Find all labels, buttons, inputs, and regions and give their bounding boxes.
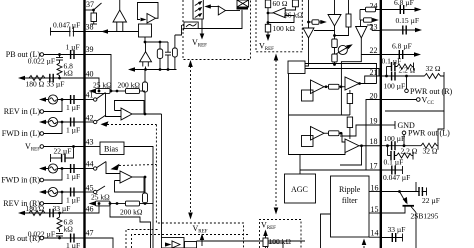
wire node row y42: [145, 41, 168, 43]
terminal circle FWD in (R): [40, 178, 44, 182]
svg-text:22: 22: [370, 46, 378, 55]
wire pin16 row: [381, 191, 427, 193]
arrowhead left pin40: [18, 76, 25, 80]
arrowhead right pin23: [415, 28, 422, 32]
resistor box vertical R-V2 feedback: [143, 177, 148, 204]
wire row y91 b: [140, 90, 146, 92]
svg-text:0.047 µF: 0.047 µF: [383, 173, 410, 182]
staircase wire to record: [110, 204, 151, 248]
source circle FWD L: [48, 117, 57, 126]
terminal PWR out (L): [402, 131, 406, 146]
svg-text:PWR out (L): PWR out (L): [408, 129, 450, 138]
capacitor C 1uF pin39: [71, 50, 74, 59]
resistor 180 ohm (L) zigzag: [29, 76, 45, 81]
resistor 6.8k (L) vertical zigzag: [57, 63, 62, 78]
capacitor C 0.022uF (L) vertical: [56, 55, 63, 64]
op-amp D2 power: [345, 77, 359, 90]
node dot chain: [333, 34, 336, 37]
svg-text:86 kΩ: 86 kΩ: [284, 11, 303, 20]
op-amp record small: [172, 241, 180, 248]
VREF drop arrow under switch box: [200, 19, 205, 40]
resistor 180 ohm (R) zigzag: [29, 211, 45, 216]
node dot chain bottom: [333, 63, 336, 66]
node dot D2 out: [358, 82, 361, 85]
node dot row y203.5 a: [109, 202, 112, 205]
resistor pill with arrow into C2: [307, 20, 327, 25]
wire row y91: [110, 90, 126, 92]
resistor box 25k top: [96, 89, 111, 94]
svg-text:6.8 µF: 6.8 µF: [392, 42, 412, 51]
wire pin17 internal to AGC: [300, 169, 381, 171]
resistor box J below D2: [347, 90, 352, 115]
wire pin23 row: [381, 29, 418, 31]
resistor box 200k top: [126, 89, 140, 94]
capacitor C 1uF pin47: [71, 234, 74, 243]
resistor box R-EQ2 vertical: [173, 25, 182, 70]
op-amp E2 power: [345, 139, 359, 153]
resistor 32 ohm (R) zigzag: [425, 74, 445, 79]
svg-text:2.2 Ω: 2.2 Ω: [399, 66, 416, 75]
node dot y42: [159, 41, 162, 44]
capacitor C 1uF pin41: [71, 95, 74, 104]
svg-text:kΩ: kΩ: [64, 225, 74, 234]
wire D2 in: [339, 86, 345, 88]
node dot D2 in: [340, 85, 343, 88]
svg-text:Ripple: Ripple: [339, 185, 361, 194]
box filter B1: [139, 24, 152, 37]
capacitor C 0.022uF (R) vertical: [56, 234, 63, 239]
wire pin22 row: [381, 54, 417, 56]
wire pin46 internal riser: [85, 204, 100, 214]
svg-text:REV in (L): REV in (L): [4, 107, 41, 116]
capacitor C 1uF pin45: [71, 188, 74, 197]
svg-text:43: 43: [86, 138, 94, 147]
arrowhead left pin44: [39, 166, 46, 170]
wire record row: [197, 240, 306, 242]
arrowhead left pin45: [39, 190, 46, 194]
resistor box pin37: [91, 10, 98, 24]
op-amp E1 power: [311, 127, 325, 141]
op-amp A5 left-pointing: [268, 7, 296, 23]
op-amp C3 down-pointing: [356, 27, 367, 55]
erase head crossed box: [237, 0, 249, 10]
arrowhead right pin22: [414, 52, 421, 56]
node dot pin44: [61, 167, 64, 170]
resistor box R-EQ1 vertical: [157, 42, 162, 70]
arrowhead into switch box: [204, 4, 218, 8]
svg-text:100 kΩ: 100 kΩ: [273, 24, 296, 33]
cluster left rail: [289, 74, 346, 155]
wire pin44 row FWD in R: [42, 168, 85, 170]
resistor box 25k bottom: [96, 201, 111, 206]
wire row y203.5 c: [140, 203, 154, 205]
wire pin24 internal with pill: [360, 7, 381, 20]
resistor chain C2 output: [332, 26, 337, 65]
terminal circle Vcc: [417, 98, 421, 102]
node dot pin18 internal: [360, 144, 363, 147]
wire pin19 row GND: [381, 124, 395, 126]
resistor box 86k feedback: [292, 0, 298, 7]
capacitor C 22uF pin16: [419, 187, 422, 196]
resistor pill D1-D2: [329, 84, 340, 89]
wire feedback row y69.5: [131, 69, 177, 71]
wire speaker R return: [385, 80, 444, 111]
svg-text:45: 45: [86, 184, 94, 193]
terminal tick pin38: [50, 28, 52, 36]
dashed box C VREF 100k: [260, 220, 302, 248]
wire pin22 to lower cluster: [341, 55, 361, 116]
node dot pin47: [58, 237, 61, 240]
resistor box vertical R-V1 feedback: [143, 70, 148, 115]
wire erase head to play head: [198, 10, 242, 29]
capacitor C 100uF (L): [392, 141, 395, 150]
dashed VREF line left vertical: [190, 66, 192, 213]
wire row y203.5: [110, 203, 126, 205]
svg-text:18: 18: [370, 137, 378, 146]
AGC box: [285, 174, 316, 203]
capacitor C 100uF (R): [392, 72, 395, 81]
svg-text:0.1 µF: 0.1 µF: [382, 57, 402, 66]
svg-text:32 Ω: 32 Ω: [423, 147, 438, 156]
svg-text:33 µF: 33 µF: [388, 225, 406, 234]
capacitor C-EQ vertical: [165, 42, 171, 70]
svg-text:FWD in (R): FWD in (R): [1, 176, 40, 185]
node dot R-V2 top: [144, 176, 147, 179]
svg-text:14: 14: [371, 229, 379, 238]
node dot PWR out L: [403, 144, 406, 147]
wire E2 in: [339, 133, 345, 142]
IC left edge (thick vertical line): [83, 0, 85, 248]
feedback loop top: [138, 3, 159, 20]
wire pin17 row: [381, 169, 403, 171]
svg-text:2.2 Ω: 2.2 Ω: [401, 147, 418, 156]
terminal circle REV in (R): [40, 202, 44, 206]
node dot R-V1 out: [144, 113, 147, 116]
zobel L branch 0.1uF + 2.2ohm: [388, 146, 414, 160]
op-amp A4: [218, 6, 225, 15]
capacitor C 1uF pin42: [71, 118, 74, 127]
feedback rect E1: [302, 136, 314, 147]
arrowhead record in: [165, 242, 172, 246]
wire REV in (R) riser: [44, 192, 63, 204]
capacitor C 6.8uF pin22: [399, 50, 402, 59]
capacitor C 1uF pin44: [71, 164, 74, 173]
svg-text:32 Ω: 32 Ω: [426, 64, 441, 73]
node dot pin43: [72, 145, 75, 148]
node dot PWR out R: [405, 75, 408, 78]
svg-text:1 µF: 1 µF: [66, 126, 80, 135]
resistor box 100k: [265, 24, 270, 32]
svg-text:1 µF: 1 µF: [66, 43, 80, 52]
wire pin23 internal: [367, 25, 381, 31]
node dot pin46 riser: [98, 202, 101, 205]
wire pin24 row: [381, 9, 417, 11]
wire pin43 to Bias: [85, 146, 101, 148]
record box 3: [268, 243, 284, 248]
feedback rect D1: [302, 90, 314, 101]
terminal tick pin14: [402, 234, 404, 242]
svg-text:kΩ: kΩ: [64, 69, 74, 78]
svg-text:44: 44: [86, 160, 94, 169]
svg-text:46: 46: [86, 205, 94, 214]
wire cluster top b: [305, 69, 381, 77]
svg-text:100 kΩ: 100 kΩ: [269, 237, 292, 246]
wire 60ohm node: [267, 8, 269, 25]
svg-text:2SB1295: 2SB1295: [411, 212, 439, 221]
svg-text:PB out (R): PB out (R): [5, 234, 40, 243]
pin 44 stub and switch: [85, 162, 107, 171]
wire pin43 row VREF: [44, 146, 85, 148]
dashed arrow up into Ripple bottom: [362, 239, 367, 248]
record box 1: [162, 238, 185, 248]
wire pin39 internal riser: [85, 55, 112, 92]
zobel R branch 0.1uF + 2.2ohm: [387, 62, 414, 76]
svg-text:60 Ω: 60 Ω: [273, 0, 288, 8]
terminal tick pin16: [426, 188, 428, 196]
capacitor C 33uF pin14: [392, 233, 395, 242]
wire pin47 row PB out R: [44, 237, 85, 239]
svg-text:1 µF: 1 µF: [66, 172, 80, 181]
resistor 32 ohm (L) zigzag: [421, 143, 438, 148]
svg-text:19: 19: [370, 117, 378, 126]
terminal tick GND: [394, 121, 396, 129]
capacitor C 0.047uF pin38: [70, 27, 74, 37]
arrowhead up VREF left: [188, 60, 193, 67]
svg-text:0.15 µF: 0.15 µF: [396, 16, 420, 25]
node dot pin45: [61, 191, 64, 194]
arrowhead right pin24: [415, 7, 422, 11]
dashed record enclosure A: [126, 230, 158, 248]
node dot pin40 riser: [98, 90, 101, 93]
terminal PWR out (R): [405, 76, 409, 93]
node dot zobel R: [385, 75, 388, 78]
op-amp B4 output wire: [132, 176, 145, 178]
svg-text:0.1 µF: 0.1 µF: [384, 158, 404, 167]
wire pin40 internal riser: [85, 78, 100, 91]
wire Ripple left down: [321, 214, 331, 248]
arrowhead into op-amp A2: [141, 18, 147, 22]
source circle REV R: [48, 187, 57, 196]
dashed VREF line right vertical: [275, 60, 277, 209]
node dots y69.5: [144, 68, 147, 71]
arrowhead left row y91: [89, 89, 96, 93]
node dot pin42: [61, 121, 64, 124]
wire FWD in (L) riser: [44, 122, 63, 134]
arrowhead down VREF right: [274, 208, 279, 215]
dashed record enclosure B: [132, 235, 249, 248]
source circle REV L: [48, 95, 57, 104]
dashed control bus vertical: [156, 125, 243, 248]
wire pin47 internal: [85, 238, 114, 248]
arrow up record VREF: [200, 234, 204, 247]
terminal circle PB out (R): [40, 236, 44, 240]
terminal circle PB out (L): [40, 53, 44, 57]
arrowhead up VREF right: [274, 54, 279, 61]
resistor box right of C2: [335, 0, 352, 36]
wire C1 to chain: [314, 30, 335, 32]
box G input selector: [288, 61, 305, 74]
node dot pin39: [58, 53, 61, 56]
arrowhead up box C: [263, 230, 268, 237]
wire pin19 internal: [340, 125, 381, 136]
svg-text:0.022 µF: 0.022 µF: [28, 57, 55, 66]
node dot pin41: [61, 98, 64, 101]
capacitor C 33uF (L): [50, 74, 53, 83]
svg-text:180 Ω: 180 Ω: [26, 80, 45, 89]
wire lower cluster top: [289, 114, 350, 116]
wire A4 output: [226, 10, 241, 12]
node dot zobel L: [386, 144, 389, 147]
op-amp B2 output wire: [132, 113, 162, 115]
resistor box M above E2: [347, 117, 352, 139]
svg-text:47: 47: [86, 229, 94, 238]
node dot pin37: [92, 9, 95, 12]
arrowhead left row y203.5: [89, 201, 96, 205]
wire AGC riser: [299, 155, 301, 175]
svg-text:33 µF: 33 µF: [47, 80, 65, 89]
terminal circle VREF: [40, 145, 44, 149]
terminal circle REV in (L): [40, 110, 44, 114]
node dot row y203.5 c: [144, 202, 147, 205]
svg-text:0.047 µF: 0.047 µF: [53, 21, 80, 30]
node dot D1 out: [325, 85, 328, 88]
wire pin38 row: [51, 31, 85, 33]
svg-text:17: 17: [370, 162, 378, 171]
dashed control arrow pin42: [101, 121, 157, 127]
dashed box head-R edges: [256, 0, 302, 52]
wire pin20 row Vcc: [381, 99, 417, 101]
wire pin18 row speaker L: [381, 145, 421, 147]
arrowhead left pin42: [39, 120, 46, 124]
svg-text:filter: filter: [342, 196, 358, 205]
wire FWD in (R) riser: [44, 169, 63, 181]
svg-text:39: 39: [86, 45, 94, 54]
wire pin42 row FWD in L: [42, 121, 85, 123]
svg-text:180 Ω: 180 Ω: [26, 204, 45, 213]
node dot row y91: [116, 90, 119, 93]
feedback pill arrow row y20: [360, 18, 379, 27]
wire pin15 row: [381, 207, 405, 214]
wire Bias output: [124, 147, 153, 248]
wire pin20 internal: [366, 100, 381, 171]
wire E1 out: [324, 132, 329, 134]
node dot row y203.5 b: [116, 202, 119, 205]
wire pin45 row REV in R: [42, 191, 85, 193]
svg-text:40: 40: [86, 70, 94, 79]
node dot pin40: [58, 77, 61, 80]
wire D2 out: [359, 83, 377, 85]
arrowhead left y69.5: [128, 67, 135, 71]
pin 37 stub: [85, 9, 94, 11]
op-amp A1 (up triangle): [113, 0, 127, 32]
arrowhead left pin46: [18, 211, 25, 215]
attenuator circle arrow: [336, 44, 353, 54]
terminal tick pin17: [402, 166, 404, 174]
svg-text:Bias: Bias: [104, 145, 118, 154]
wire pin15 internal: [369, 212, 381, 214]
wire pin18 internal: [359, 145, 381, 147]
svg-text:33 µF: 33 µF: [53, 204, 71, 213]
wire pin16 internal: [369, 191, 381, 193]
Bias box: [100, 142, 124, 155]
long vertical wire V1: [161, 114, 163, 238]
svg-text:AGC: AGC: [291, 185, 308, 194]
node dots 60ohm: [267, 12, 270, 15]
feedback wire pin18: [340, 146, 362, 165]
wire cluster top a: [305, 64, 377, 84]
capacitor C 33uF (R): [50, 209, 53, 218]
wire speaker L return: [438, 111, 444, 142]
resistor box 200k bottom: [126, 201, 140, 206]
resistor 6.8k (R) vertical zigzag: [57, 213, 62, 232]
svg-text:100 µF: 100 µF: [384, 82, 406, 91]
svg-text:1 µF: 1 µF: [66, 103, 80, 112]
node dot transistor emitter: [398, 190, 401, 193]
terminal tick 32ohm R: [443, 72, 445, 80]
play head box: [183, 22, 198, 31]
pin 42 stub and switch: [85, 115, 107, 124]
node dot B1: [144, 41, 147, 44]
wire under B1: [144, 37, 146, 42]
resistor pill E1-E2: [329, 131, 340, 136]
svg-text:22 µF: 22 µF: [54, 147, 72, 156]
wire pin40 row: [21, 77, 85, 79]
op-amp A3 (up triangle): [140, 42, 152, 70]
wire D1 out: [324, 86, 329, 88]
switch box 3-gang: [193, 0, 203, 19]
op-amp C1 down-pointing: [303, 0, 314, 38]
capacitor C 6.8uF pin24: [400, 5, 403, 14]
wire pin21 jog to D2: [365, 76, 381, 84]
wire pin41 row REV in L: [42, 99, 85, 101]
wire pin46 row: [21, 212, 85, 214]
svg-text:1 µF: 1 µF: [66, 241, 80, 248]
wire pin21 row speaker R: [381, 75, 425, 77]
pin 41 stub and switch: [85, 93, 106, 102]
wire pin39 row PB out L: [44, 54, 85, 56]
wire pin38 internal: [85, 31, 139, 33]
dashed control arrow pin44: [111, 164, 157, 171]
source circle FWD R: [48, 164, 57, 173]
Ripple filter box: [331, 176, 370, 237]
arrowhead down VREF left: [188, 213, 193, 220]
svg-text:42: 42: [86, 114, 94, 123]
wire C1 output to box G: [305, 38, 309, 66]
capacitor C 0.15uF pin23: [403, 26, 406, 35]
wire REV in (L) riser: [44, 100, 63, 112]
pin 45 stub and switch: [85, 186, 106, 194]
node dot pin39 riser: [110, 90, 113, 93]
dashed box head-L edges: [183, 0, 251, 60]
VREF drop arrow 100k: [266, 32, 271, 41]
switch diagonal pin37: [94, 3, 102, 10]
svg-text:22 µF: 22 µF: [422, 196, 440, 205]
wire pin14 internal: [369, 236, 381, 238]
op-amp B4 R-input: [106, 162, 144, 193]
IC right edge (thick vertical line): [380, 0, 382, 248]
svg-text:PWR out (R): PWR out (R): [410, 87, 453, 96]
terminal circle FWD in (L): [40, 132, 44, 136]
op-amp C2 down-pointing: [328, 0, 341, 26]
arrowhead left pin41: [39, 97, 46, 101]
op-amp B2 L-input: [106, 93, 145, 120]
arrowhead left on pin38 wire: [101, 29, 108, 33]
terminal tick 32ohm L: [437, 142, 439, 150]
node dot E2 in: [340, 132, 343, 135]
svg-text:6.8 µF: 6.8 µF: [394, 0, 414, 7]
svg-text:37: 37: [86, 0, 94, 9]
resistor box 100k box C: [263, 235, 268, 248]
